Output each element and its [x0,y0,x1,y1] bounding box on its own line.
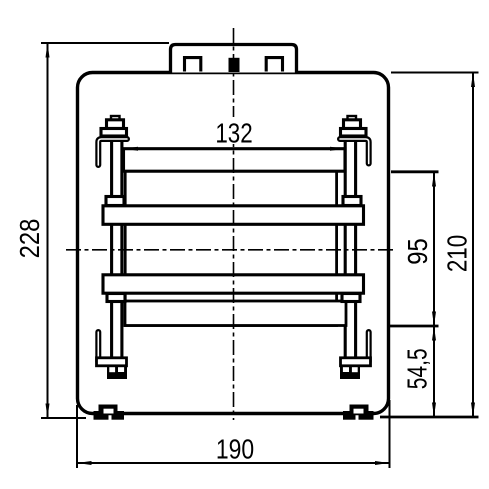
svg-text:95: 95 [401,238,433,264]
svg-text:132: 132 [215,118,252,149]
svg-text:54,5: 54,5 [403,348,434,389]
svg-text:210: 210 [442,235,473,272]
svg-text:190: 190 [216,434,254,465]
svg-text:228: 228 [13,219,45,259]
